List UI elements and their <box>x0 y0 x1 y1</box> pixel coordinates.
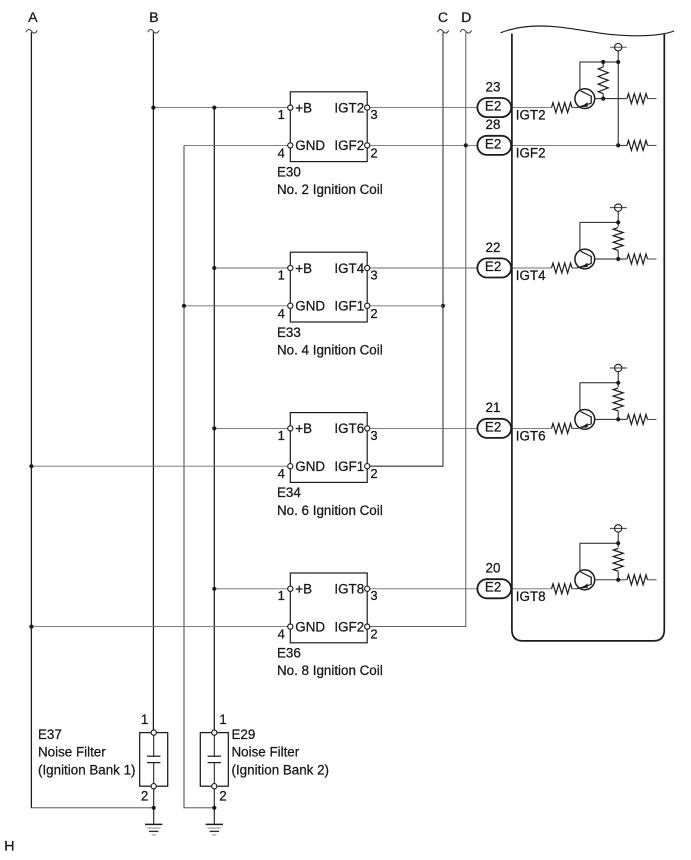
svg-text:1: 1 <box>141 712 148 727</box>
E34 pin 4 (GND) <box>288 464 293 469</box>
unit IGT4: supply rail wire <box>617 211 619 226</box>
wire GND branch x=184 (to E29 filter) <box>183 145 185 807</box>
svg-text:+B: +B <box>295 421 312 436</box>
junction resistor/base line <box>616 578 620 582</box>
ECM block outline <box>512 33 664 641</box>
unit IGT4: pull-up resistor <box>613 228 623 251</box>
unit IGT6: collector top wire <box>580 382 618 384</box>
E34 pin 2 (IGF1) <box>365 464 370 469</box>
junction x214/+B row E30 <box>212 106 216 110</box>
junction rail/top wire <box>616 541 620 545</box>
svg-text:IGT4: IGT4 <box>516 268 546 283</box>
E36 pin 3 (IGT8) <box>365 586 370 591</box>
svg-text:2: 2 <box>370 466 377 481</box>
wire IGF2 row E30 to ECM rail <box>370 144 619 146</box>
svg-text:4: 4 <box>278 306 285 321</box>
ECM torn top edge (wave) <box>501 26 675 36</box>
E29 capacitor <box>213 735 215 756</box>
E37 capacitor <box>153 735 155 756</box>
node D break symbol <box>460 29 471 33</box>
svg-text:23: 23 <box>486 79 501 94</box>
unit IGT2: load resistor <box>627 94 648 104</box>
unit IGT8: power symbol (B+) <box>610 527 627 529</box>
svg-text:IGT8: IGT8 <box>516 589 546 604</box>
wire GND row E30 <box>184 144 288 146</box>
wire B vertical (+B feed) <box>152 32 154 731</box>
E37 pin 1 <box>151 730 156 735</box>
wire +B row E34 <box>214 427 288 429</box>
svg-text:No. 8 Ignition Coil: No. 8 Ignition Coil <box>277 663 383 678</box>
junction resistor/base line <box>601 97 605 101</box>
svg-text:E36: E36 <box>277 646 301 661</box>
svg-text:2: 2 <box>141 789 148 804</box>
ignition coil E36 box <box>290 573 367 643</box>
wire IGT2 row coil to ECM <box>370 107 552 109</box>
svg-text:E37: E37 <box>38 727 62 742</box>
unit IGT6: series resistor on IGT6 line <box>552 423 573 433</box>
svg-text:20: 20 <box>486 561 501 576</box>
E36 pin 1 (+B) <box>288 586 293 591</box>
node A break symbol <box>26 29 37 33</box>
unit IGT2: pull-up resistor <box>602 62 604 67</box>
svg-text:4: 4 <box>278 627 285 642</box>
wire IGT6 row coil to ECM <box>370 427 552 429</box>
svg-text:B: B <box>149 10 158 26</box>
svg-text:H: H <box>4 838 14 854</box>
E29 pin 2 <box>212 784 217 789</box>
E29 wire pin2 to ground <box>213 789 215 824</box>
junction rail/IGF2 line <box>616 143 620 147</box>
unit IGT2: collector wire <box>579 62 581 90</box>
ignition coil E33 box <box>290 252 367 322</box>
E33 pin 4 (GND) <box>288 303 293 308</box>
connector E2 pin 21 oval <box>477 419 511 438</box>
svg-text:E29: E29 <box>232 727 256 742</box>
wire GND row E34 <box>31 465 288 467</box>
unit IGT2: base line to load resistor <box>595 98 627 100</box>
wire +B row E33 <box>214 267 288 269</box>
unit IGT8: pull-up resistor <box>613 548 623 571</box>
unit IGT6: collector wire <box>579 383 581 411</box>
E37 wire pin2 to ground <box>153 789 155 824</box>
unit IGT4: collector top wire <box>580 221 618 223</box>
svg-text:2: 2 <box>370 627 377 642</box>
svg-text:E2: E2 <box>485 259 501 274</box>
noise filter E29 box <box>200 733 228 787</box>
svg-text:3: 3 <box>370 428 377 443</box>
wire GND row E33 <box>184 305 288 307</box>
noise filter E37 box <box>140 733 168 787</box>
svg-text:E30: E30 <box>277 164 301 179</box>
unit IGT6: pull-up resistor <box>613 388 623 411</box>
svg-text:(Ignition Bank 1): (Ignition Bank 1) <box>38 762 136 777</box>
svg-text:22: 22 <box>486 240 501 255</box>
E30 pin 2 (IGF2) <box>365 143 370 148</box>
junction rail/top wire <box>616 220 620 224</box>
svg-text:Noise Filter: Noise Filter <box>232 745 300 760</box>
unit IGT6: base line to load resistor <box>595 418 627 420</box>
junction D/IGF2 row <box>464 143 468 147</box>
svg-text:E2: E2 <box>485 419 501 434</box>
svg-text:E34: E34 <box>277 485 301 500</box>
unit IGT4: series resistor on IGT4 line <box>552 263 573 273</box>
svg-text:E2: E2 <box>485 580 501 595</box>
connector E2 pin 28 oval (IGF2) <box>477 136 511 155</box>
unit IGT8: base line to load resistor <box>595 579 627 581</box>
unit IGT6: supply rail wire <box>617 372 619 387</box>
wire +B row E36 <box>214 588 288 590</box>
wire C vertical (IGF1 net) <box>370 32 443 466</box>
svg-text:A: A <box>28 10 38 26</box>
svg-text:IGT8: IGT8 <box>334 582 364 597</box>
junction x214/+B row E33 <box>212 266 216 270</box>
svg-text:E2: E2 <box>485 99 501 114</box>
connector E2 pin 20 oval <box>477 579 511 598</box>
E30 pin 1 (+B) <box>288 105 293 110</box>
svg-text:C: C <box>438 10 448 26</box>
E37 pin 2 <box>151 784 156 789</box>
svg-text:1: 1 <box>278 588 285 603</box>
IGF2 load resistor <box>627 140 648 150</box>
unit IGT2: transistor <box>575 89 595 109</box>
svg-text:+B: +B <box>295 100 312 115</box>
svg-text:IGT6: IGT6 <box>334 421 364 436</box>
wire IGT8 row coil to ECM <box>370 588 552 590</box>
junction ground bus E37 <box>152 806 156 810</box>
svg-text:GND: GND <box>295 299 325 314</box>
E34 pin 1 (+B) <box>288 426 293 431</box>
unit IGT6: transistor <box>575 410 595 430</box>
svg-text:3: 3 <box>370 267 377 282</box>
junction rail/top wire <box>616 381 620 385</box>
svg-text:1: 1 <box>278 428 285 443</box>
ground symbol below E29 <box>206 823 223 825</box>
unit IGT2: supply rail wire <box>617 51 619 145</box>
unit IGT8: load resistor <box>627 575 648 585</box>
E33 pin 3 (IGT4) <box>365 265 370 270</box>
svg-text:1: 1 <box>278 267 285 282</box>
svg-text:GND: GND <box>295 459 325 474</box>
svg-text:2: 2 <box>219 789 226 804</box>
svg-text:+B: +B <box>295 261 312 276</box>
junction B/+B row <box>151 106 155 110</box>
E30 pin 3 (IGT2) <box>365 105 370 110</box>
svg-text:D: D <box>461 10 471 26</box>
E34 pin 3 (IGT6) <box>365 426 370 431</box>
E36 pin 4 (GND) <box>288 624 293 629</box>
ignition coil E30 box <box>290 92 367 162</box>
unit IGT8: transistor <box>575 570 595 590</box>
svg-text:No. 6 Ignition Coil: No. 6 Ignition Coil <box>277 503 383 518</box>
svg-text:IGF1: IGF1 <box>334 299 364 314</box>
junction resistor top <box>601 60 605 64</box>
junction A/GND row E36 <box>29 625 33 629</box>
wire GND row E36 <box>31 626 288 628</box>
svg-text:Noise Filter: Noise Filter <box>38 745 106 760</box>
junction resistor/base line <box>616 417 620 421</box>
svg-text:3: 3 <box>370 107 377 122</box>
junction x214/+B row E34 <box>212 426 216 430</box>
junction rail/top wire <box>616 60 620 64</box>
svg-text:IGT2: IGT2 <box>516 108 546 123</box>
E33 pin 1 (+B) <box>288 265 293 270</box>
svg-text:3: 3 <box>370 588 377 603</box>
unit IGT8: collector top wire <box>580 542 618 544</box>
svg-text:1: 1 <box>219 712 226 727</box>
junction x184/GND row E33 <box>182 304 186 308</box>
wire +B branch x=214 <box>213 108 215 731</box>
unit IGT8: supply rail wire <box>617 532 619 547</box>
svg-text:E2: E2 <box>485 136 501 151</box>
node B break symbol <box>148 29 159 33</box>
svg-text:IGT6: IGT6 <box>516 428 546 443</box>
junction A/GND row E34 <box>29 464 33 468</box>
unit IGT8: collector wire <box>579 543 581 571</box>
unit IGT4: power symbol (B+) <box>610 207 627 209</box>
svg-text:1: 1 <box>278 107 285 122</box>
junction resistor/base line <box>616 257 620 261</box>
svg-text:+B: +B <box>295 582 312 597</box>
junction x214/+B row E36 <box>212 587 216 591</box>
unit IGT8: series resistor on IGT8 line <box>552 584 573 594</box>
wire D vertical (IGF2 net) <box>370 32 466 626</box>
svg-text:(Ignition Bank 2): (Ignition Bank 2) <box>232 762 330 777</box>
svg-text:E33: E33 <box>277 325 301 340</box>
ground symbol below E37 <box>145 823 162 825</box>
svg-text:IGF2: IGF2 <box>334 138 364 153</box>
svg-text:IGF1: IGF1 <box>334 459 364 474</box>
unit IGT2: series resistor on IGT2 line <box>552 103 573 113</box>
svg-text:28: 28 <box>486 117 501 132</box>
svg-text:2: 2 <box>370 145 377 160</box>
svg-text:2: 2 <box>370 306 377 321</box>
svg-text:4: 4 <box>278 466 285 481</box>
svg-text:IGT4: IGT4 <box>334 261 364 276</box>
junction ground bus E29 <box>212 806 216 810</box>
svg-text:GND: GND <box>295 619 325 634</box>
unit IGT2: power symbol (B+) <box>610 46 627 48</box>
svg-text:IGF2: IGF2 <box>334 619 364 634</box>
svg-text:IGF2: IGF2 <box>516 145 546 160</box>
node C break symbol <box>437 29 448 33</box>
unit IGT2: collector top wire <box>580 61 618 63</box>
unit IGT4: transistor <box>575 249 595 269</box>
wire IGT4 row coil to ECM <box>370 267 552 269</box>
svg-text:21: 21 <box>486 400 501 415</box>
E30 pin 4 (GND) <box>288 143 293 148</box>
connector E2 pin 22 oval <box>477 258 511 277</box>
svg-text:IGT2: IGT2 <box>334 100 364 115</box>
unit IGT6: load resistor <box>627 414 648 424</box>
wire +B row E30 <box>153 107 288 109</box>
wire IGF1 E33 to C <box>370 305 444 307</box>
unit IGT4: collector wire <box>579 222 581 250</box>
svg-text:GND: GND <box>295 138 325 153</box>
junction C/IGF1 row E33 <box>441 304 445 308</box>
E29 pin 1 <box>212 730 217 735</box>
E36 pin 2 (IGF2) <box>365 624 370 629</box>
unit IGT6: power symbol (B+) <box>610 367 627 369</box>
E33 pin 2 (IGF1) <box>365 303 370 308</box>
svg-text:No. 4 Ignition Coil: No. 4 Ignition Coil <box>277 342 383 357</box>
connector E2 pin 23 oval <box>477 98 511 117</box>
ignition coil E34 box <box>290 413 367 483</box>
unit IGT4: load resistor <box>627 254 648 264</box>
unit IGT4: base line to load resistor <box>595 258 627 260</box>
svg-text:No. 2 Ignition Coil: No. 2 Ignition Coil <box>277 182 383 197</box>
svg-text:4: 4 <box>278 145 285 160</box>
wire A vertical (ground bus bank 1) <box>30 32 32 808</box>
